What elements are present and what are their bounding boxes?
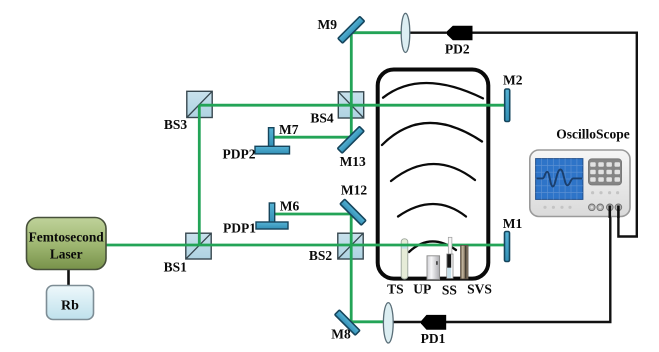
svg-text:SVS: SVS	[467, 282, 492, 297]
svg-text:BS3: BS3	[164, 117, 188, 132]
svg-text:BS2: BS2	[309, 248, 333, 263]
svg-text:PD1: PD1	[421, 331, 446, 346]
svg-text:M2: M2	[503, 73, 523, 88]
svg-text:M9: M9	[318, 17, 338, 32]
svg-text:PD2: PD2	[445, 42, 470, 57]
svg-text:TS: TS	[387, 282, 404, 297]
svg-text:M12: M12	[341, 183, 367, 198]
svg-text:Laser: Laser	[50, 247, 83, 262]
svg-text:PDP1: PDP1	[223, 221, 256, 236]
svg-text:M6: M6	[280, 199, 300, 214]
svg-text:UP: UP	[413, 282, 431, 297]
svg-text:BS1: BS1	[164, 259, 188, 274]
svg-text:OscilloScope: OscilloScope	[556, 127, 630, 142]
svg-text:SS: SS	[442, 283, 457, 298]
svg-text:M1: M1	[503, 216, 523, 231]
svg-text:M7: M7	[279, 122, 299, 137]
svg-text:PDP2: PDP2	[223, 147, 256, 162]
svg-text:BS4: BS4	[310, 111, 334, 126]
svg-text:M13: M13	[340, 154, 366, 169]
svg-text:Femtosecond: Femtosecond	[29, 230, 105, 245]
svg-text:Rb: Rb	[61, 298, 79, 313]
svg-text:M8: M8	[331, 327, 351, 342]
